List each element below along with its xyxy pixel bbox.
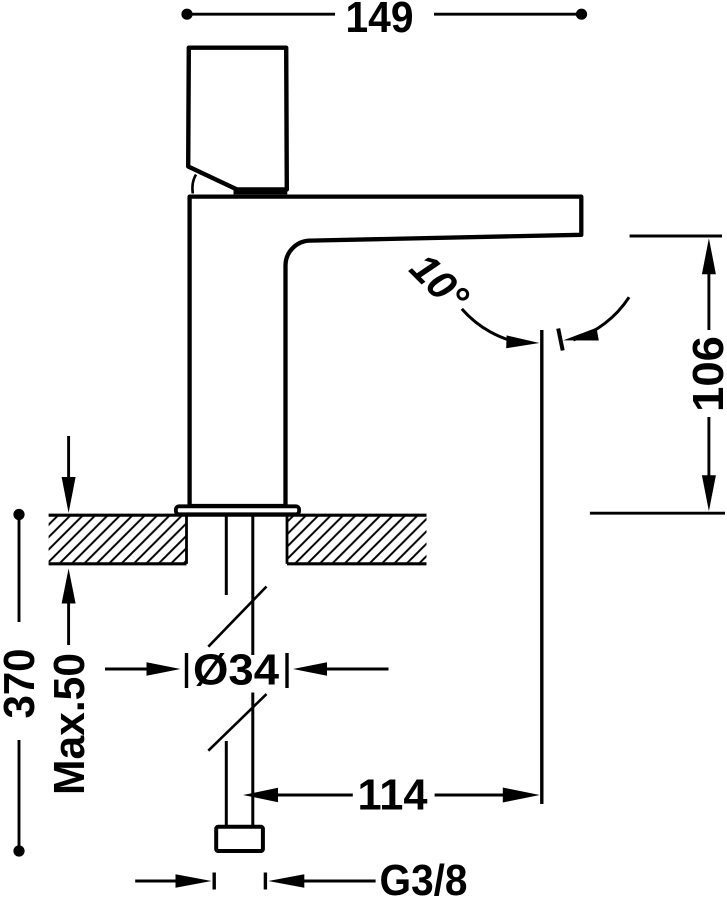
dimension G3/8 right arrowhead (268, 874, 304, 888)
dimension 114 right arrowhead (503, 788, 540, 803)
svg-text:370: 370 (0, 649, 44, 719)
dimension 370 top dot (13, 509, 24, 520)
supply shank left line lower (225, 741, 228, 826)
supply shank left line upper (225, 517, 228, 596)
dimension Max.50 upper line (67, 436, 70, 482)
dimension 106 upper line (707, 270, 710, 330)
dimension G3/8 left arrowhead (176, 874, 212, 888)
svg-text:G3/8: G3/8 (380, 856, 468, 900)
angle arc left (462, 309, 525, 344)
svg-text:106: 106 (684, 336, 727, 412)
outlet 10deg tick (558, 329, 563, 351)
dimension 106 bottom extension line (590, 512, 725, 515)
dimension 114 right line (435, 794, 506, 797)
dimension diameter 34 right tick (285, 653, 288, 688)
svg-text:Max.50: Max.50 (45, 653, 94, 795)
countertop top surface line (49, 514, 427, 517)
dimension Max.50 down arrowhead (62, 477, 76, 513)
mounting hole left edge (185, 515, 188, 564)
dimension 370 bottom dot (13, 845, 24, 856)
svg-text:149: 149 (346, 0, 414, 42)
dimension 149 left dot (181, 9, 192, 20)
supply shank right line lower (251, 693, 254, 827)
dimension 149 right dot (576, 9, 587, 20)
dimension 106 down arrowhead (702, 475, 716, 511)
faucet handle lever (188, 48, 287, 190)
countertop right hatched section (287, 516, 427, 562)
countertop left hatched section (49, 516, 187, 562)
dimension diameter 34 left arrowhead (147, 662, 181, 676)
dimension 370 upper line (18, 515, 21, 623)
dimension diameter 34 right line (320, 668, 389, 671)
dimension diameter 34 left line (105, 668, 154, 671)
angle arc right arrowhead (563, 328, 599, 341)
dimension 114 left line (276, 794, 353, 797)
mounting hole right edge (286, 515, 289, 564)
countertop bottom line left (49, 562, 187, 565)
dimension 149 right line (434, 13, 582, 16)
cartridge dome arc (192, 175, 196, 194)
outlet axis vertical line (540, 330, 543, 804)
dimension 106 up arrowhead (702, 238, 716, 274)
dimension Max.50 lower line (67, 601, 70, 645)
svg-text:Ø34: Ø34 (193, 646, 280, 695)
countertop bottom line right (287, 562, 427, 565)
dimension 106 top extension line (630, 235, 722, 238)
angle arc right (573, 297, 629, 340)
svg-text:114: 114 (358, 771, 429, 820)
connection nut (216, 827, 263, 851)
dimension 370 lower line (18, 740, 21, 851)
dimension G3/8 right tick (264, 873, 267, 890)
dimension diameter 34 left tick (185, 653, 188, 688)
angle arc left arrowhead (506, 335, 539, 348)
dimension diameter 34 right arrowhead (293, 662, 327, 676)
dimension G3/8 right line (302, 880, 376, 883)
base plate escutcheon (176, 506, 299, 514)
dimension 106 lower line (707, 417, 710, 480)
dimension Max.50 up arrowhead (62, 569, 76, 604)
dimension G3/8 left line (135, 880, 178, 883)
handle base thick bar (234, 188, 288, 194)
dimension 149 left line (187, 13, 335, 16)
break slash upper (208, 587, 266, 647)
supply shank right line upper (251, 517, 254, 656)
dimension G3/8 left tick (212, 873, 215, 890)
break slash lower (208, 694, 266, 751)
dimension 114 left arrowhead (243, 788, 278, 802)
faucet body and spout outline (190, 197, 582, 506)
